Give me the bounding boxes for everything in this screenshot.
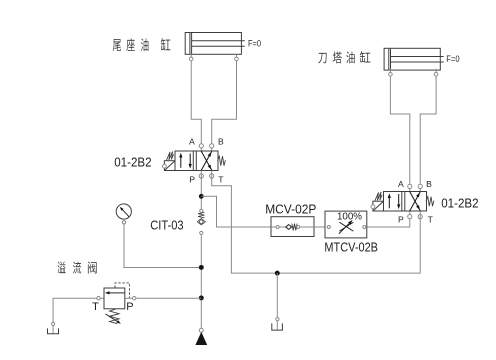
port circle left-valve P bbox=[199, 174, 203, 178]
svg-text:01-2B2: 01-2B2 bbox=[114, 156, 151, 170]
port circle right-valve A bbox=[408, 184, 412, 188]
label 刀塔油缸 (turret cylinder) bbox=[318, 53, 326, 63]
label 尾座油缸 (tailstock cylinder) bbox=[113, 39, 121, 51]
svg-text:CIT-03: CIT-03 bbox=[150, 218, 183, 232]
svg-text:MTCV-02B: MTCV-02B bbox=[324, 240, 378, 254]
svg-text:B: B bbox=[426, 179, 432, 189]
wire junction down to tank bbox=[276, 273, 278, 330]
wire T return both valves bbox=[212, 171, 421, 274]
svg-text:T: T bbox=[92, 301, 99, 313]
tank branch circle bbox=[276, 318, 279, 321]
MTCV port circle left bbox=[327, 226, 330, 229]
MCV check symbol bbox=[276, 226, 279, 229]
svg-text:A: A bbox=[189, 136, 195, 146]
wire right-cyl portB to valve B bbox=[420, 69, 436, 192]
wire left-cyl portA to valve A bbox=[191, 54, 201, 151]
valve U1 01-2B2 left 4/2 solenoid bbox=[163, 151, 226, 171]
wire relief P to junction bbox=[125, 297, 202, 299]
svg-text:T: T bbox=[428, 215, 434, 225]
valve U2 01-2B2 right 4/2 solenoid bbox=[371, 192, 434, 212]
port circle left-valve B bbox=[210, 144, 214, 148]
pump source triangle bbox=[195, 332, 207, 345]
wire left-valve P down bbox=[200, 171, 202, 212]
port circle right-valve P bbox=[408, 215, 412, 219]
svg-text:01-2B2: 01-2B2 bbox=[441, 196, 478, 210]
port circle right-cyl rod-end bbox=[389, 73, 393, 77]
svg-text:F=0: F=0 bbox=[248, 39, 261, 49]
relief spring with arrow bbox=[110, 309, 120, 324]
gauge needle bbox=[121, 208, 130, 217]
port circle left-valve T bbox=[210, 174, 214, 178]
node gauge junction bbox=[199, 265, 204, 270]
wire branch to MCV line bbox=[201, 196, 271, 227]
wire gauge down to main line bbox=[124, 219, 199, 267]
check valve CIT-03 inline bbox=[197, 209, 205, 234]
MTCV-02B box bbox=[325, 211, 367, 238]
cylinder 刀塔油缸 barrel+piston+rod bbox=[384, 48, 444, 70]
relief pilot dashed line bbox=[115, 283, 129, 298]
svg-text:P: P bbox=[398, 215, 404, 225]
port circle right-cyl cap-end bbox=[434, 73, 438, 77]
svg-text:A: A bbox=[398, 179, 404, 189]
gauge circle bbox=[116, 204, 131, 219]
port circle left-valve A bbox=[199, 144, 203, 148]
wire through MCV/MTCV to right valve P bbox=[271, 211, 410, 227]
port circle relief P bbox=[133, 297, 136, 300]
svg-text:P: P bbox=[126, 301, 133, 313]
wire relief T to tank bbox=[53, 298, 104, 322]
node return-tank junction bbox=[275, 271, 280, 276]
port circle right-valve B bbox=[418, 184, 422, 188]
label 溢流阀 bbox=[58, 261, 66, 273]
svg-text:T: T bbox=[218, 174, 224, 184]
port circle relief T bbox=[97, 297, 100, 300]
wire check to junction bbox=[200, 233, 202, 331]
node junction P-branch bbox=[199, 194, 204, 199]
wire left-cyl portB to valve B bbox=[212, 54, 237, 151]
svg-text:F=0: F=0 bbox=[446, 54, 459, 64]
gauge stem circle bbox=[122, 221, 125, 224]
tank symbol relief bbox=[48, 328, 59, 333]
relief internal arrow bbox=[109, 292, 124, 294]
cylinder 尾座油缸 barrel+piston+rod bbox=[185, 33, 245, 55]
svg-text:P: P bbox=[189, 174, 195, 184]
node relief junction bbox=[199, 295, 204, 300]
port circle left-cyl cap-end bbox=[235, 57, 239, 61]
relief valve body bbox=[104, 288, 125, 309]
pump source circle bbox=[199, 328, 203, 332]
svg-text:100%: 100% bbox=[337, 212, 362, 223]
svg-text:MCV-02P: MCV-02P bbox=[265, 203, 316, 217]
port circle right-valve T bbox=[418, 215, 422, 219]
MCV-02P box bbox=[271, 217, 314, 237]
svg-text:B: B bbox=[218, 136, 224, 146]
port circle left-cyl rod-end bbox=[189, 57, 193, 61]
MTCV port circle right bbox=[363, 226, 366, 229]
MTCV throttle symbol bbox=[339, 222, 353, 231]
tank symbol center bbox=[272, 323, 283, 330]
tank circle relief bbox=[52, 322, 55, 325]
wire right-cyl portA to valve A bbox=[390, 69, 409, 192]
